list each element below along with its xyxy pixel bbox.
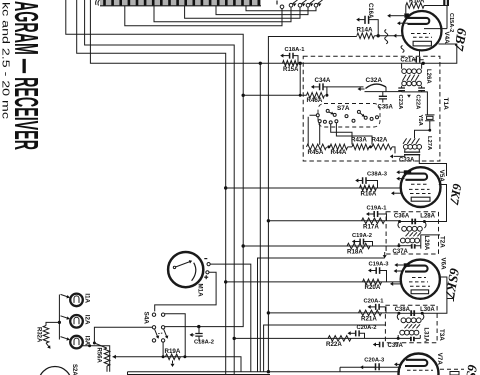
node R14A-C16A <box>377 34 380 37</box>
wire pin lead 4 <box>216 6 308 15</box>
svg-text:C39A: C39A <box>388 343 404 349</box>
wire pin lead 1 <box>125 6 282 26</box>
wire R19A line <box>113 357 242 372</box>
capacitor C19A-1 <box>366 211 387 221</box>
capacitor C22A <box>418 88 425 91</box>
node bus F bottom <box>267 370 270 373</box>
wire bus D / grid line <box>90 0 456 63</box>
node bus A C18A-2 <box>197 325 200 328</box>
transformer L26A primary <box>402 63 422 73</box>
transformer L27A coil <box>403 145 421 150</box>
jack I3A <box>70 336 83 349</box>
svg-text:I3A: I3A <box>83 336 90 346</box>
svg-text:C33A: C33A <box>399 157 415 163</box>
svg-text:R10A: R10A <box>409 0 425 5</box>
jack arrow I1A <box>61 294 70 298</box>
capacitor C36A <box>412 219 415 225</box>
svg-text:C34A: C34A <box>315 77 331 84</box>
wire secondary join <box>402 92 428 115</box>
tube V5A grids <box>411 183 429 185</box>
tube V6A arrows <box>394 263 404 273</box>
transformer box T2A <box>386 212 438 254</box>
wiper arrow R56A <box>113 355 116 359</box>
capacitor C20A-2 <box>348 330 365 338</box>
wire bus C (AVC) <box>77 0 226 375</box>
tube V4A grids <box>411 33 430 35</box>
transformer L27A core <box>403 138 420 143</box>
svg-text:R17A: R17A <box>363 223 379 230</box>
svg-text:C32A: C32A <box>366 77 383 84</box>
wire S7A lead d <box>336 123 372 145</box>
wire pin lead 2 <box>154 6 291 22</box>
capacitor C32A <box>358 84 402 92</box>
tube V4A cathode <box>413 41 431 46</box>
wire pin lead 3 <box>185 6 300 18</box>
wire bus F / R14A line <box>268 37 356 372</box>
wire jack bus <box>58 295 60 340</box>
resistor R44A <box>330 144 348 150</box>
node T2A s1 <box>397 244 400 247</box>
tube V7A heater U <box>405 360 427 366</box>
svg-text:R45A: R45A <box>308 149 324 156</box>
wire T3A primary <box>399 312 422 314</box>
meter M1A needle <box>173 260 196 281</box>
capacitor C20A-3 <box>360 363 379 370</box>
capacitor C18A-2 <box>190 327 203 342</box>
crystal Y5A <box>425 115 434 121</box>
svg-text:R56A: R56A <box>96 348 102 364</box>
tube V4A grid cap <box>404 13 409 17</box>
svg-text:C18A-1: C18A-1 <box>285 47 306 53</box>
lamp S2A <box>39 367 72 375</box>
tube V5A envelope <box>401 167 441 207</box>
svg-text:C20A-1: C20A-1 <box>364 298 385 304</box>
svg-text:kc and 2.5 - 20 mc: kc and 2.5 - 20 mc <box>0 2 12 119</box>
meter minus terminal <box>204 259 210 266</box>
svg-text:R20A: R20A <box>365 284 381 291</box>
wire bus A <box>66 0 243 327</box>
wire R21A feed <box>268 312 399 314</box>
resistor R17A <box>362 218 385 224</box>
svg-text:R14A: R14A <box>357 27 374 34</box>
ground arrow R32A <box>46 343 51 349</box>
wire V7A grid feed <box>340 366 401 368</box>
svg-text:S7A: S7A <box>337 105 350 112</box>
tube V6A cathode <box>411 290 429 294</box>
svg-text:T1A: T1A <box>442 98 449 111</box>
resistor R20A <box>363 279 382 285</box>
transformer L30A primary <box>397 313 424 322</box>
wire R14A to V4A <box>374 30 402 44</box>
svg-text:C37A: C37A <box>393 249 409 255</box>
resistor R10A <box>406 3 447 29</box>
resistor R18A <box>347 243 370 249</box>
svg-text:I1A: I1A <box>83 293 90 303</box>
tube V5A heater U <box>405 174 427 180</box>
svg-text:C36A: C36A <box>394 214 410 220</box>
node bus A R46A <box>242 94 245 97</box>
transformer L26A secondary <box>402 81 422 88</box>
svg-text:M1A: M1A <box>197 284 204 298</box>
wire pin lead 5 <box>246 6 316 11</box>
svg-text:C16A: C16A <box>367 3 373 19</box>
meter plus terminal <box>204 271 209 280</box>
capacitor C21A <box>416 57 419 63</box>
capacitor C19A-3 <box>368 267 387 282</box>
wire S4A bottom right <box>162 342 164 357</box>
node R46A feed2 <box>299 94 302 97</box>
tube V6A heater U <box>405 266 428 272</box>
svg-text:C21A: C21A <box>400 58 416 64</box>
capacitor C33A <box>390 149 420 158</box>
wire bus E <box>259 63 261 371</box>
capacitor C39A <box>380 342 383 347</box>
node bus F R17A <box>267 219 270 222</box>
svg-text:R22A: R22A <box>326 341 342 348</box>
tube V4A grid lead arrow <box>387 14 404 18</box>
terminal tick <box>276 1 278 5</box>
transformer L31A secondary <box>398 330 420 338</box>
resistor R14A <box>357 33 375 39</box>
tube V4A plate line <box>424 28 447 30</box>
wire Y5A to L27A <box>415 121 430 138</box>
svg-text:T2A: T2A <box>439 236 446 248</box>
capacitor C37A <box>412 244 415 249</box>
svg-text:R19A: R19A <box>165 348 181 355</box>
svg-text:C18A-2: C18A-2 <box>194 340 214 346</box>
wire heater bus 1 <box>258 258 385 372</box>
jack arrow I3A <box>61 337 70 341</box>
svg-text:R15A: R15A <box>283 67 299 73</box>
node T2A p2 <box>423 220 426 223</box>
resistor R19A <box>165 354 180 360</box>
svg-text:R44A: R44A <box>331 149 347 156</box>
node T2A p1 <box>398 220 401 223</box>
capacitor C35A <box>379 92 387 103</box>
wire V6A plate <box>422 277 447 313</box>
subtitle kc and 2.5 - 20 mc (rotated) <box>0 2 12 119</box>
wire chain <box>348 146 352 148</box>
jack arrow I2A <box>61 316 70 320</box>
node I3A tip <box>88 344 91 347</box>
wire V6A grid feed <box>226 281 401 283</box>
svg-text:R32A: R32A <box>36 327 42 343</box>
transformer L29A secondary <box>399 235 440 246</box>
switch S7A box <box>318 104 380 128</box>
wire V5A grid feed <box>226 187 401 189</box>
svg-text:T3A: T3A <box>438 329 445 341</box>
node bus A C19A-2 <box>242 244 245 247</box>
svg-text:L28A: L28A <box>420 214 435 220</box>
transformer T3A core <box>405 324 421 328</box>
tube V5A arrows <box>391 170 405 195</box>
wire R17A feed <box>268 220 399 222</box>
resistor R56A <box>104 348 110 366</box>
node bus D 260 <box>259 62 262 65</box>
node R19A a <box>162 355 165 358</box>
svg-text:L29A: L29A <box>423 236 429 251</box>
capacitor C16A <box>356 16 378 36</box>
resistor R21A <box>359 310 382 316</box>
wire R15A node drop <box>299 63 301 95</box>
svg-text:I2A: I2A <box>83 315 90 325</box>
switch S7A contacts <box>316 109 378 124</box>
tube V7A envelope <box>399 354 439 375</box>
wire R56A bottom <box>106 366 108 372</box>
switch S1A <box>280 0 322 9</box>
wire S7A lead b <box>319 123 321 145</box>
node AVC-V5A <box>224 186 227 189</box>
svg-text:6S: 6S <box>463 363 480 375</box>
tube V7A grids <box>407 369 433 371</box>
svg-text:L27A: L27A <box>426 136 432 151</box>
wire R32A link <box>46 322 59 325</box>
capacitor C38A <box>411 310 414 316</box>
resistor R16A <box>360 185 377 191</box>
tube V4A diode arrow <box>397 21 408 25</box>
transformer T2A core <box>406 232 422 236</box>
resistor R43A <box>352 144 369 150</box>
svg-text:C20A-2: C20A-2 <box>357 325 377 331</box>
wire V4A cathode lead <box>419 50 421 56</box>
node bus D 300 <box>299 62 302 65</box>
svg-text:L26A: L26A <box>425 69 431 84</box>
terminal strip TS1 <box>96 0 261 6</box>
node Y5A lead <box>428 129 431 132</box>
wire R42A out <box>392 147 395 154</box>
resistor R22A <box>328 336 351 342</box>
svg-text:R21A: R21A <box>361 315 377 322</box>
tube V5A grid cap <box>404 170 411 174</box>
meter M1A <box>168 252 203 287</box>
svg-text:C19A-1: C19A-1 <box>367 205 388 211</box>
svg-text:R42A: R42A <box>372 137 388 144</box>
wire T2A primary <box>400 221 425 223</box>
node jack bus <box>58 321 61 324</box>
svg-text:C23A: C23A <box>397 95 403 111</box>
resistor R32A <box>43 326 49 344</box>
tube V6A grid arrow <box>390 282 401 286</box>
jack I2A <box>70 315 83 328</box>
svg-text:S4A: S4A <box>143 312 150 325</box>
tube V5A cathode <box>411 197 430 201</box>
svg-text:S2A: S2A <box>71 364 77 375</box>
wire C34A to C32A <box>327 86 364 88</box>
wire bus B <box>85 0 235 375</box>
svg-text:R43A: R43A <box>351 137 367 144</box>
wire meter minus bus <box>210 264 251 372</box>
wire S4A mid left <box>94 327 152 343</box>
transformer box T1A <box>303 56 440 161</box>
wire bottom bus <box>128 371 401 373</box>
wire R22A feed <box>234 337 398 339</box>
wire S7A lead a <box>308 115 316 145</box>
svg-text:R16A: R16A <box>361 191 377 198</box>
svg-text:V5A: V5A <box>438 170 445 183</box>
resistor R15A <box>283 61 299 67</box>
node R56A top <box>93 342 96 345</box>
wire meter plus <box>155 272 216 311</box>
svg-text:C20A-3: C20A-3 <box>364 357 385 363</box>
capacitor C20A-1 <box>368 304 387 313</box>
node R43-42 <box>369 145 372 148</box>
capacitor C34A <box>311 83 327 95</box>
svg-text:C19A-3: C19A-3 <box>369 262 390 268</box>
transformer L28A primary <box>398 222 426 232</box>
svg-text:C15A-2: C15A-2 <box>448 13 454 32</box>
svg-text:AGRAM — RECEIVER: AGRAM — RECEIVER <box>8 1 45 150</box>
node T3A p1 <box>397 312 400 315</box>
resistor R46A <box>307 93 325 99</box>
tube V6A envelope <box>401 260 440 299</box>
resistor R42A <box>372 144 392 150</box>
wire S4A right top <box>165 314 185 357</box>
svg-text:C38A: C38A <box>395 307 411 313</box>
svg-text:C22A: C22A <box>415 95 421 111</box>
svg-text:R18A: R18A <box>347 249 363 256</box>
node R19A b <box>183 355 186 358</box>
tube V6A grids <box>412 277 426 279</box>
wire I3A tip <box>83 346 110 372</box>
node bus D C21A <box>422 62 425 65</box>
capacitor C23A <box>398 88 405 91</box>
ground arrow R19A <box>171 361 175 368</box>
title text SCHEMATIC DIAGRAM - RECEIVER (rotated) <box>8 1 45 150</box>
capacitor C38A-3 <box>355 177 377 188</box>
transformer L26A core <box>403 75 420 81</box>
node T3A p2 <box>421 312 424 315</box>
node T3A s1 <box>397 337 400 340</box>
capacitor C39A inner <box>411 337 414 341</box>
svg-text:V4A: V4A <box>443 32 450 45</box>
switch S4A <box>152 313 168 342</box>
svg-text:L31A: L31A <box>422 328 428 343</box>
wire V5A plate <box>424 185 446 222</box>
node AVC-V6A <box>224 280 227 283</box>
wire R46A feed <box>243 94 306 96</box>
tube V4A heater U <box>405 18 429 24</box>
wire R18A feed <box>243 245 399 247</box>
svg-text:Y5A: Y5A <box>417 115 423 127</box>
svg-text:V6A: V6A <box>440 258 447 271</box>
tube V4A envelope <box>402 11 441 50</box>
resistor R45A <box>307 144 327 150</box>
svg-text:C19A-2: C19A-2 <box>352 233 372 239</box>
svg-text:C38A-3: C38A-3 <box>367 172 388 178</box>
node R44-45 <box>327 145 330 148</box>
node bus F R21A <box>267 311 270 314</box>
node bus B R22A <box>233 337 236 340</box>
capacitor C18A-1 <box>280 53 298 64</box>
node R46A out <box>325 94 328 97</box>
svg-text:V7A: V7A <box>436 353 443 366</box>
transformer box T3A <box>385 305 437 343</box>
jack I1A <box>70 294 83 307</box>
wire heater bus 2 <box>264 325 386 372</box>
svg-text:R46A: R46A <box>307 97 323 104</box>
capacitor C19A-2 <box>352 239 373 246</box>
capacitor C15A-2 <box>444 0 448 6</box>
tube V6A grid cap <box>404 263 410 267</box>
wire R56A top lead <box>94 343 106 348</box>
wire C33A out <box>419 155 446 176</box>
wire S7A lead c <box>331 124 352 145</box>
tube V7A grid arrow <box>394 362 401 366</box>
wire V7A dashes <box>440 368 464 370</box>
